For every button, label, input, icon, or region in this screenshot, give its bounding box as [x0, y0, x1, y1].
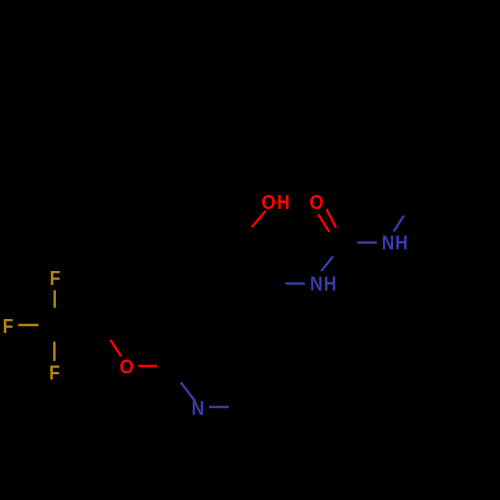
- svg-text:O: O: [261, 192, 275, 214]
- svg-text:N: N: [192, 397, 205, 419]
- svg-text:O: O: [309, 192, 323, 214]
- svg-text:N: N: [310, 273, 323, 295]
- svg-text:F: F: [3, 315, 14, 337]
- svg-text:F: F: [50, 267, 61, 289]
- svg-text:O: O: [119, 357, 133, 379]
- svg-text:H: H: [277, 191, 290, 213]
- svg-text:N: N: [382, 231, 395, 253]
- svg-text:F: F: [49, 362, 60, 384]
- svg-text:H: H: [395, 231, 408, 253]
- svg-text:H: H: [324, 273, 337, 295]
